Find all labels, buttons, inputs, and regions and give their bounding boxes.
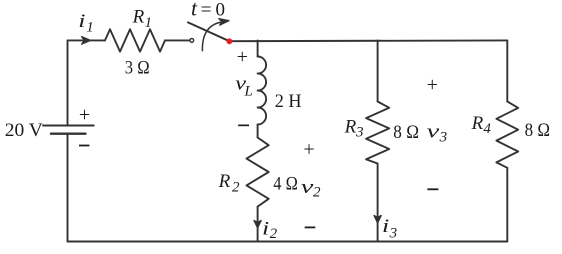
resistor R2 xyxy=(247,138,269,207)
svg-text:2: 2 xyxy=(270,226,278,242)
resistor R3 xyxy=(366,102,389,164)
svg-text:20 V: 20 V xyxy=(5,120,43,141)
resistor R4 xyxy=(496,102,518,168)
svg-text:3 Ω: 3 Ω xyxy=(125,57,150,78)
svg-text:2: 2 xyxy=(232,179,240,195)
battery negative plate xyxy=(51,132,86,134)
svg-text:1: 1 xyxy=(86,20,94,36)
svg-text:+: + xyxy=(427,74,438,96)
svg-text:4 Ω: 4 Ω xyxy=(273,173,298,194)
svg-text:+: + xyxy=(79,104,90,126)
svg-text:3: 3 xyxy=(389,225,398,241)
switch arc arrowhead xyxy=(219,19,229,26)
switch open terminal circle xyxy=(190,39,194,43)
wire bottom xyxy=(68,241,508,243)
label minus vL xyxy=(238,125,249,127)
label minus battery xyxy=(79,145,89,147)
svg-text:i: i xyxy=(262,219,269,240)
svg-text:=: = xyxy=(201,0,212,20)
svg-text:0: 0 xyxy=(216,0,226,20)
svg-text:3: 3 xyxy=(355,124,364,140)
battery positive plate xyxy=(43,125,94,127)
wire R1 to switch xyxy=(165,39,189,41)
svg-text:8 Ω: 8 Ω xyxy=(525,120,551,141)
arrowhead i3 xyxy=(374,216,381,224)
svg-text:2: 2 xyxy=(313,184,321,200)
wire R2 to bottom, current i2 xyxy=(257,207,259,242)
wire top right of switch xyxy=(229,39,507,42)
switch blade xyxy=(188,22,229,41)
svg-text:R: R xyxy=(132,7,145,28)
label minus v2 xyxy=(305,227,316,229)
resistor R1 xyxy=(105,29,165,51)
svg-text:t: t xyxy=(191,0,198,20)
svg-text:i: i xyxy=(382,216,389,237)
arrowhead i1 xyxy=(82,37,91,45)
svg-text:3: 3 xyxy=(439,130,448,146)
svg-text:4: 4 xyxy=(483,121,491,137)
wire L to R2 xyxy=(257,125,259,138)
wire R3 branch top xyxy=(377,40,379,101)
svg-text:+: + xyxy=(237,46,248,68)
arrowhead i2 xyxy=(254,221,261,229)
svg-text:i: i xyxy=(78,11,85,32)
svg-text:+: + xyxy=(303,139,314,161)
label minus v3 xyxy=(427,188,438,190)
switch closed node red dot xyxy=(227,38,233,44)
wire right edge bottom xyxy=(506,168,508,242)
switch arc arrow curve xyxy=(202,22,222,51)
inductor L 2H xyxy=(258,57,267,125)
wire right edge top xyxy=(506,40,508,101)
svg-text:8 Ω: 8 Ω xyxy=(393,122,419,143)
svg-text:1: 1 xyxy=(145,15,153,31)
wire R3 to bottom, current i3 xyxy=(377,164,379,242)
svg-text:L: L xyxy=(244,83,253,99)
svg-text:R: R xyxy=(471,113,484,134)
svg-text:R: R xyxy=(344,116,357,137)
svg-text:2 H: 2 H xyxy=(275,91,302,112)
wire inductor branch top xyxy=(257,40,259,56)
svg-text:R: R xyxy=(218,171,231,192)
wire left edge below battery xyxy=(67,134,69,242)
wire top-left segment xyxy=(68,40,106,125)
svg-text:v: v xyxy=(427,121,440,142)
